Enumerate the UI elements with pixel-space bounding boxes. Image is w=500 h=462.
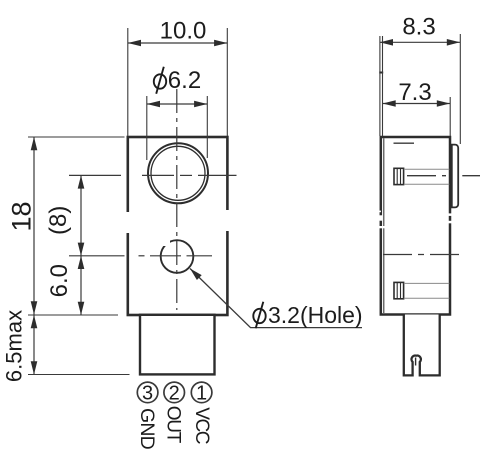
svg-text:2: 2 [169, 383, 180, 405]
side view tab with slot [404, 315, 440, 376]
side view body outline [381, 137, 450, 315]
dimension line 6.5max [33, 315, 35, 375]
dimension line 6.0 [80, 256, 82, 315]
middle centerline of side view [383, 254, 461, 256]
svg-text:8.3: 8.3 [402, 14, 435, 41]
slot inner tick [415, 358, 417, 366]
side view inner left line [383, 138, 385, 313]
pin number circle 1 [191, 382, 212, 403]
svg-text:3.2(Hole): 3.2(Hole) [268, 302, 363, 328]
extension line bottom of tab [28, 374, 130, 376]
dimension line (8) [80, 175, 82, 255]
svg-text:6.2: 6.2 [168, 67, 201, 94]
pin number circle 3 [137, 382, 158, 403]
dimension line dia 6.2 [147, 103, 208, 105]
side view lens bump [452, 145, 458, 208]
extension line for 7.3 [449, 97, 451, 136]
terminal block lower [394, 282, 404, 298]
svg-text:10.0: 10.0 [160, 18, 207, 45]
horizontal centerline through lens [69, 174, 121, 176]
svg-text:OUT: OUT [162, 406, 183, 444]
watermark erase gap on hole circle upper left [158, 238, 170, 246]
side view top inner line [394, 142, 415, 144]
svg-text:VCC: VCC [191, 407, 212, 443]
horizontal centerline through hole [69, 255, 125, 257]
svg-text:(8): (8) [45, 206, 72, 235]
small tick on extension pair [379, 72, 383, 74]
upper centerline dash [407, 175, 448, 177]
vertical centerline of front view [176, 89, 178, 310]
leader line for hole callout [190, 269, 362, 328]
dimension line 7.3 [383, 103, 451, 105]
svg-text:7.3: 7.3 [398, 79, 431, 106]
hole callout text [253, 302, 362, 329]
extension lines for 10.0 [127, 28, 129, 136]
upper pin channel lines [404, 168, 450, 170]
front view bottom connector tab [140, 315, 215, 375]
lower pin channel lines [404, 282, 450, 284]
extension line top for 18 [28, 136, 125, 138]
lens circle outer [148, 143, 208, 203]
mounting hole circle [161, 240, 194, 273]
watermark erase notches on side view right edge [448, 213, 452, 216]
svg-text:6.5max: 6.5max [2, 310, 27, 382]
dimension line 10.0 [128, 42, 228, 44]
dimension line 8.3 [380, 41, 460, 43]
dimension line 18 [33, 137, 35, 315]
svg-text:GND: GND [136, 408, 158, 450]
svg-text:3: 3 [142, 383, 153, 405]
watermark erase notches on side view left edge [378, 211, 381, 213]
svg-text:1: 1 [196, 383, 207, 405]
dimension text dia 6.2 [154, 67, 201, 94]
front view body outline [128, 137, 228, 315]
extension lines for dia 6.2 [146, 96, 148, 160]
terminal block upper [394, 168, 404, 184]
watermark erase gap on front body left edge [124, 212, 132, 233]
svg-text:6.0: 6.0 [46, 264, 73, 297]
extension lines for 8.3 [379, 36, 381, 136]
lens circle inner [151, 146, 205, 200]
watermark erase gap on front body right edge [223, 210, 231, 231]
pin number circle 2 [164, 382, 185, 403]
extension line bottom of body [28, 314, 118, 316]
svg-text:18: 18 [7, 201, 37, 231]
